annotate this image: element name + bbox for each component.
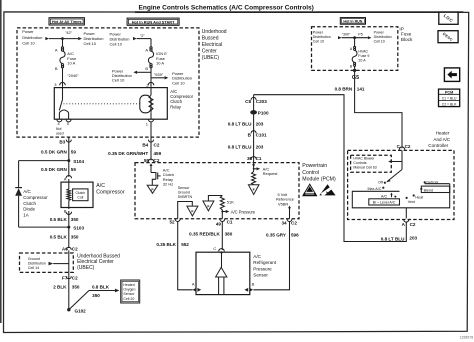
svg-text:B: B <box>145 66 148 71</box>
svg-text:Heat: Heat <box>415 196 423 200</box>
IP Fuse Block dashed box <box>312 27 398 71</box>
svg-text:Vent: Vent <box>408 200 415 204</box>
svg-text:C2: C2 <box>154 142 160 147</box>
svg-text:51K: 51K <box>227 199 234 204</box>
HVAC Blower Controls dashed box <box>351 155 392 172</box>
connector 36 C1 <box>247 156 262 161</box>
svg-text:Oxygen: Oxygen <box>123 288 135 292</box>
svg-text:0.8 LT BLU: 0.8 LT BLU <box>381 236 405 241</box>
Heater and AC Controller dashed box <box>348 150 454 219</box>
svg-text:Distribution: Distribution <box>22 35 42 40</box>
wire 300 horizontal <box>342 33 368 40</box>
svg-text:0.35 DK GRN/WHT: 0.35 DK GRN/WHT <box>108 151 148 156</box>
connector C8 C203 <box>245 97 267 104</box>
PCM data link icon 1 <box>303 184 317 196</box>
grommet P100 <box>250 110 269 115</box>
IP Fuse Block label <box>399 27 413 42</box>
wire 42 horizontal <box>49 30 78 40</box>
node: Power Distribution out (right of 42) <box>78 31 103 46</box>
svg-text:Compressor: Compressor <box>96 190 125 196</box>
svg-text:1158578: 1158578 <box>460 335 474 339</box>
svg-text:F: F <box>253 188 255 192</box>
svg-text:459: 459 <box>154 151 162 156</box>
svg-text:203: 203 <box>409 236 417 241</box>
svg-text:552: 552 <box>181 242 189 247</box>
svg-text:0.8 BRN: 0.8 BRN <box>335 87 353 92</box>
svg-text:350: 350 <box>71 235 79 240</box>
switch position Blend <box>420 186 450 192</box>
sensor pin C <box>213 246 224 252</box>
wire 2040 <box>63 68 80 87</box>
svg-text:5: 5 <box>67 122 69 126</box>
svg-text:C1 = BLU: C1 = BLU <box>442 96 457 100</box>
svg-text:Control: Control <box>302 170 319 176</box>
header box: Hot In RUN <box>340 18 365 25</box>
svg-text:59: 59 <box>71 149 77 154</box>
svg-text:(UBEC): (UBEC) <box>77 265 95 271</box>
controller output wire to pin A <box>405 208 407 219</box>
svg-text:Cell 10: Cell 10 <box>22 41 35 46</box>
svg-text:C1: C1 <box>256 156 262 161</box>
svg-text:F: F <box>207 204 209 208</box>
footer number <box>460 335 474 339</box>
connector A6 C2 <box>62 246 78 309</box>
Heater And A/C Controller label <box>428 131 451 149</box>
svg-text:Cell 10: Cell 10 <box>313 40 324 44</box>
fuse F-AC pin B <box>55 64 64 72</box>
fuse IGN E Fuse 10A <box>148 51 167 66</box>
svg-text:Cell 10: Cell 10 <box>374 40 385 44</box>
UBEC ground distribution dashed box <box>20 253 74 272</box>
junction G5 <box>352 69 359 81</box>
svg-text:Controller: Controller <box>428 143 448 148</box>
wire 0.5 BLK 350 upper <box>50 217 79 222</box>
svg-text:PCM: PCM <box>445 91 453 95</box>
switch position Vent <box>406 197 416 204</box>
node: Power Distribution feed (IGN E) <box>110 32 137 47</box>
svg-text:596: 596 <box>291 232 299 237</box>
node: Power Distribution branch left <box>112 68 151 82</box>
svg-text:0.5 DK GRN: 0.5 DK GRN <box>41 149 67 154</box>
svg-text:203: 203 <box>256 121 264 126</box>
svg-text:0.8 LT BLU: 0.8 LT BLU <box>228 145 252 150</box>
fuse IGN E pin B <box>145 64 152 71</box>
svg-text:32 Hz: 32 Hz <box>163 182 173 187</box>
diode A/C Compressor Clutch Diode <box>15 188 22 228</box>
icon box DESC <box>438 31 458 43</box>
svg-text:4: 4 <box>58 122 60 126</box>
PCM pin 34 C2 <box>281 219 297 226</box>
svg-text:Fuse 9: Fuse 9 <box>358 54 369 58</box>
svg-text:Electrical: Electrical <box>202 42 222 48</box>
svg-text:"939": "939" <box>154 72 164 77</box>
wire 2 BLK 350 <box>53 284 80 289</box>
relay pin 2 <box>146 82 153 87</box>
switch position Off <box>378 180 384 184</box>
svg-text:A/C: A/C <box>96 183 105 189</box>
svg-text:Powertrain: Powertrain <box>302 163 327 169</box>
connector B C101 <box>248 131 267 138</box>
svg-text:Manual Cell 63: Manual Cell 63 <box>353 166 376 170</box>
svg-text:Cell 10: Cell 10 <box>84 41 97 46</box>
svg-text:Sensor: Sensor <box>178 186 190 190</box>
svg-text:20 A: 20 A <box>358 59 366 63</box>
svg-text:F7: F7 <box>62 275 68 280</box>
wire 0.8 LT BLU 203 (lower) <box>228 145 264 150</box>
wire 0.5 DK GRN 59 upper <box>41 149 76 154</box>
svg-text:2 BLK: 2 BLK <box>53 284 67 289</box>
relay pin 1 <box>146 119 154 160</box>
svg-text:Controls:: Controls: <box>353 161 367 165</box>
A/C Refrigerant Pressure Sensor box <box>196 251 250 294</box>
sensor pin B <box>244 282 254 292</box>
svg-text:0.8 BLK: 0.8 BLK <box>92 285 110 290</box>
svg-text:Bussed: Bussed <box>202 35 219 41</box>
compressor pin B <box>64 208 72 227</box>
svg-text:10 A: 10 A <box>67 60 75 65</box>
svg-text:34: 34 <box>281 221 287 226</box>
HVAC fuse pin A <box>350 38 356 51</box>
wire 0.35 RED/BLK 380 <box>189 222 233 249</box>
wire 0.8 BLK 350 to HO2S <box>69 285 120 310</box>
wire to A/C fuse <box>62 39 64 48</box>
PCM dashed box <box>135 163 299 219</box>
PCM label <box>302 163 336 183</box>
svg-text:Power: Power <box>374 30 385 34</box>
arrow to blower controls <box>388 160 402 163</box>
svg-text:A: A <box>55 47 58 52</box>
svg-text:C2: C2 <box>410 222 416 227</box>
PCM driver transistor Q1 <box>150 163 161 185</box>
svg-text:Hot In RUN: Hot In RUN <box>343 20 362 24</box>
svg-text:350: 350 <box>71 217 79 222</box>
svg-text:HVAC Blower: HVAC Blower <box>353 157 375 161</box>
fuse F-AC pin A <box>55 47 64 52</box>
node: Power Distribution out (IP right) <box>368 30 392 43</box>
svg-text:P100: P100 <box>258 111 269 116</box>
svg-text:Power: Power <box>313 30 324 34</box>
svg-text:A/C Pressure: A/C Pressure <box>231 209 256 214</box>
svg-text:Sensor: Sensor <box>253 273 268 278</box>
svg-text:HVAC: HVAC <box>358 49 368 53</box>
svg-text:(UBEC): (UBEC) <box>202 55 220 61</box>
svg-text:S104: S104 <box>73 159 84 164</box>
wire 2 horizontal <box>137 33 151 48</box>
svg-text:Pressure: Pressure <box>253 266 272 271</box>
relay K1 A/C Compressor Clutch Relay box <box>54 88 193 120</box>
svg-text:Hot In RUN And START: Hot In RUN And START <box>132 20 175 25</box>
svg-text:Cell 14: Cell 14 <box>28 266 39 270</box>
PCM internal triangle F2 <box>203 196 222 211</box>
svg-text:Center: Center <box>202 49 217 55</box>
svg-text:B4: B4 <box>142 142 148 147</box>
splice S103 <box>67 226 84 231</box>
svg-text:Engine Controls Schematics (A/: Engine Controls Schematics (A/C Compress… <box>139 5 314 12</box>
wire 0.35 GRY 596 <box>253 222 299 290</box>
wire 0.8 LT BLU 203 (controller to PCM) <box>254 95 418 242</box>
UBEC label <box>202 29 227 61</box>
icon box back arrow <box>444 68 459 82</box>
diode D1 branch wire <box>19 161 69 188</box>
svg-text:C1: C1 <box>227 220 233 225</box>
PCM A/C Pressure arrow <box>221 209 256 218</box>
svg-text:Distribution: Distribution <box>374 35 392 39</box>
svg-text:Sensor: Sensor <box>123 292 135 296</box>
svg-text:Power: Power <box>22 29 34 34</box>
PCM label Sensor Ground 5VBRTN <box>178 186 193 199</box>
PCM internal triangle F3 <box>248 185 259 195</box>
svg-text:Heater: Heater <box>436 131 450 136</box>
connector A C2 (controller out) <box>402 220 416 227</box>
svg-text:"300": "300" <box>342 33 351 37</box>
svg-text:A/C: A/C <box>253 254 261 259</box>
svg-text:Diode: Diode <box>23 207 35 212</box>
svg-text:And A/C: And A/C <box>433 137 451 142</box>
svg-text:used: used <box>56 131 64 135</box>
svg-text:A: A <box>145 48 148 53</box>
PCM connector legend box <box>439 89 460 107</box>
svg-text:G102: G102 <box>75 309 87 314</box>
svg-text:C8: C8 <box>245 99 251 104</box>
wire 0.35 DK GRN/WHT 459 <box>108 151 161 156</box>
connector C C2 (controller) <box>397 144 411 150</box>
svg-text:0.35 BLK: 0.35 BLK <box>156 242 176 247</box>
PCM data link icon 2 <box>319 184 335 195</box>
svg-text:Underhood: Underhood <box>202 29 227 35</box>
wire 939 branch right <box>151 72 168 80</box>
switch position Heat <box>413 194 424 199</box>
svg-text:36: 36 <box>247 156 253 161</box>
A/C request wire (outside PCM) <box>253 95 255 163</box>
controller switch wiper <box>384 150 402 183</box>
svg-text:Ground: Ground <box>178 191 190 195</box>
svg-text:0.35 RED/BLK: 0.35 RED/BLK <box>189 231 220 236</box>
svg-text:Module (PCM): Module (PCM) <box>302 177 336 183</box>
svg-text:5VBRTN: 5VBRTN <box>178 195 193 199</box>
svg-text:1A: 1A <box>23 213 29 218</box>
svg-text:A/C: A/C <box>23 189 31 194</box>
svg-text:Ground: Ground <box>28 257 40 261</box>
switch position Defrost <box>424 180 450 184</box>
svg-text:350: 350 <box>92 293 100 298</box>
PCM sensor ground wire from pin 52 <box>178 202 193 219</box>
svg-text:Hot At All Times: Hot At All Times <box>52 19 82 24</box>
A/C Compressor label <box>96 183 125 195</box>
svg-text:Fuse: Fuse <box>401 32 412 37</box>
diode label <box>23 189 48 218</box>
title <box>135 5 463 13</box>
svg-text:Clutch: Clutch <box>75 191 85 195</box>
svg-text:B: B <box>55 66 58 71</box>
connector 55 C2 <box>144 158 160 163</box>
svg-text:Request: Request <box>263 171 279 176</box>
svg-text:Clutch: Clutch <box>23 201 36 206</box>
wire 0.8 BRN 141 <box>335 70 402 148</box>
svg-text:141: 141 <box>357 87 365 92</box>
svg-text:Relay: Relay <box>170 104 182 109</box>
svg-text:A/C: A/C <box>381 194 387 198</box>
svg-text:Blend: Blend <box>424 188 433 192</box>
connector B3 <box>59 137 71 161</box>
svg-text:G5: G5 <box>352 75 359 81</box>
node: Power Distribution feed (IP) <box>313 30 342 43</box>
splice S104 <box>67 159 84 164</box>
relay coil with resistor <box>64 88 154 120</box>
wire 0.35 BLK 552 <box>156 222 192 290</box>
switch position Max A/C <box>367 187 384 191</box>
svg-text:Bi – Level A/C: Bi – Level A/C <box>373 201 396 205</box>
svg-text:0.35 GRY: 0.35 GRY <box>266 232 286 237</box>
compressor pin A <box>64 176 72 190</box>
svg-text:Distribution: Distribution <box>313 35 331 39</box>
svg-text:Cell 10: Cell 10 <box>172 80 185 85</box>
PCM pin 49 C1 <box>216 219 233 226</box>
fuse HVAC Fuse 9 20A <box>352 49 369 62</box>
PCM A/C request input wire <box>252 163 278 176</box>
sensor pin A <box>192 282 201 292</box>
connector F7 C2 <box>62 275 78 280</box>
svg-text:Defrost: Defrost <box>426 180 438 184</box>
wire 0.5 DK GRN 59 lower <box>41 161 76 177</box>
scan edge artifact <box>0 0 2 323</box>
svg-text:B: B <box>252 282 255 287</box>
svg-text:0.5 BLK: 0.5 BLK <box>50 217 68 222</box>
svg-text:49: 49 <box>216 221 222 226</box>
svg-text:"2": "2" <box>140 33 146 38</box>
UBEC label 2 <box>77 253 120 271</box>
svg-text:0.5 DK GRN: 0.5 DK GRN <box>41 167 67 172</box>
svg-text:F: F <box>191 210 193 214</box>
svg-text:Cell 20: Cell 20 <box>123 297 134 301</box>
svg-text:0.8 LT BLU: 0.8 LT BLU <box>228 121 252 126</box>
PCM internal triangle P (clutch relay driver) <box>147 185 158 193</box>
svg-text:Cell 10: Cell 10 <box>112 78 125 83</box>
PCM label A/C Clutch Relay 32 Hz <box>163 167 174 186</box>
wire 0.8 LT BLU 203 (upper) <box>228 121 264 126</box>
node: Power Distribution feed (left) <box>22 29 49 45</box>
svg-text:Distribution: Distribution <box>28 262 46 266</box>
wire from IGN E fuse to relay pin 2 <box>150 68 152 87</box>
header box: Hot At All Times <box>49 18 84 25</box>
A/C Compressor box with clutch coil <box>61 182 93 209</box>
svg-text:A6: A6 <box>62 246 68 251</box>
header box: Hot In RUN And START <box>127 18 179 25</box>
sensor label <box>253 254 276 278</box>
svg-text:C203: C203 <box>256 99 267 104</box>
svg-text:10 A: 10 A <box>156 60 164 65</box>
svg-text:B3: B3 <box>59 139 65 144</box>
wire diode to S103 <box>19 226 69 228</box>
svg-text:A: A <box>192 282 195 287</box>
wire 0.5 BLK 350 lower <box>50 227 79 248</box>
PCM resistor 51K <box>220 196 234 212</box>
svg-text:Cell 10: Cell 10 <box>110 41 123 46</box>
Heated Oxygen Sensor box <box>121 280 140 303</box>
svg-text:"42": "42" <box>65 30 73 35</box>
svg-text:380: 380 <box>225 231 233 236</box>
node: Power Distribution out right <box>172 71 192 85</box>
svg-text:P5: P5 <box>358 33 362 37</box>
icon box LOC <box>439 12 458 24</box>
svg-text:Block: Block <box>401 37 413 42</box>
svg-text:V5BR: V5BR <box>278 202 288 207</box>
svg-text:59: 59 <box>71 167 77 172</box>
fuse A/C Fuse 10A <box>60 51 77 66</box>
PCM 5 volt reference wire <box>276 192 294 219</box>
svg-text:C2: C2 <box>72 246 78 251</box>
svg-text:Coil: Coil <box>77 195 83 199</box>
svg-text:C2: C2 <box>72 275 78 280</box>
svg-text:C2: C2 <box>405 144 411 149</box>
svg-text:Compressor: Compressor <box>23 195 48 200</box>
HVAC fuse pin B <box>350 62 356 70</box>
svg-text:S103: S103 <box>73 226 84 231</box>
svg-text:C101: C101 <box>256 132 267 137</box>
UBEC dashed box (top left) <box>17 28 199 137</box>
svg-text:350: 350 <box>72 284 80 289</box>
svg-text:"2040": "2040" <box>67 73 79 78</box>
svg-text:Heated: Heated <box>123 283 134 287</box>
svg-text:C2: C2 <box>291 221 297 226</box>
relay pins 4 5 not used <box>56 119 71 135</box>
svg-text:Max A/C: Max A/C <box>367 187 381 191</box>
ground G102 <box>67 308 86 314</box>
switch A/C + Bi-Level box <box>352 184 449 208</box>
svg-text:Refrigerant: Refrigerant <box>253 260 276 265</box>
PCM pull resistor <box>252 172 256 185</box>
connector B4 C2 <box>142 140 159 148</box>
relay switch contacts <box>59 88 68 120</box>
svg-text:C: C <box>213 246 216 251</box>
svg-text:203: 203 <box>256 145 264 150</box>
svg-text:C2 = BLK: C2 = BLK <box>442 103 457 107</box>
svg-text:0.5 BLK: 0.5 BLK <box>50 235 68 240</box>
fuse IGN E pin A <box>145 47 152 53</box>
relay pin 3 <box>54 82 65 87</box>
PCM pin 52 <box>169 219 180 225</box>
svg-text:52: 52 <box>169 220 175 225</box>
PCM internal triangle F1 <box>187 206 198 216</box>
